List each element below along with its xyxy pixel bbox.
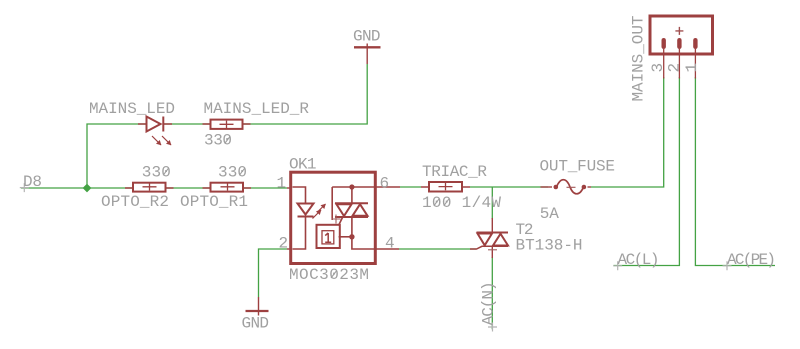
svg-text:2: 2: [279, 235, 289, 253]
svg-text:OPTO_R1: OPTO_R1: [180, 193, 248, 211]
svg-text:D8: D8: [23, 173, 42, 191]
svg-text:4: 4: [385, 235, 395, 253]
svg-text:330: 330: [142, 164, 171, 182]
svg-text:330: 330: [218, 164, 247, 182]
svg-text:OUT_FUSE: OUT_FUSE: [540, 157, 616, 175]
svg-text:OPTO_R2: OPTO_R2: [101, 193, 169, 211]
svg-text:1: 1: [683, 63, 701, 73]
svg-text:MAINS_LED: MAINS_LED: [89, 100, 175, 118]
svg-text:GND: GND: [353, 27, 381, 45]
svg-text:TRIAC_R: TRIAC_R: [422, 163, 487, 181]
svg-text:2: 2: [666, 63, 684, 73]
svg-text:GND: GND: [242, 314, 270, 332]
svg-text:AC(N): AC(N): [479, 281, 497, 325]
svg-text:330: 330: [204, 132, 232, 150]
svg-text:BT138-H: BT138-H: [516, 236, 583, 254]
svg-text:MAINS_LED_R: MAINS_LED_R: [204, 100, 310, 118]
svg-text:AC(L): AC(L): [618, 251, 660, 269]
svg-text:6: 6: [380, 175, 390, 193]
svg-text:OK1: OK1: [289, 156, 317, 174]
svg-text:1: 1: [277, 175, 287, 193]
svg-text:5A: 5A: [540, 205, 559, 223]
svg-text:MAINS_OUT: MAINS_OUT: [630, 16, 648, 102]
svg-text:AC(PE): AC(PE): [727, 251, 776, 269]
svg-text:100 1/4W: 100 1/4W: [422, 194, 501, 212]
svg-text:MOC3023M: MOC3023M: [289, 266, 369, 284]
svg-text:3: 3: [649, 63, 667, 73]
